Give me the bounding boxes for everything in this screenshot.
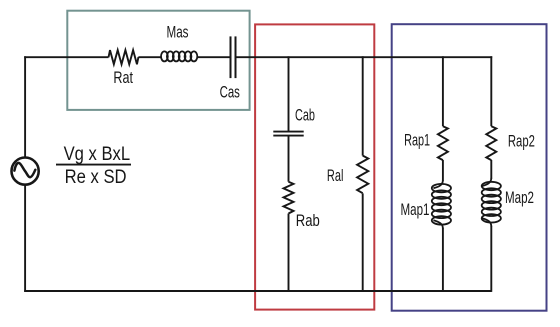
capacitor Cab <box>273 132 303 136</box>
label: source value fraction Vg x BxL / Re x SD <box>56 144 131 188</box>
svg-text:Ral: Ral <box>327 166 344 185</box>
svg-text:Rab: Rab <box>296 211 320 230</box>
wire: top rail segment from Rat to Mas <box>138 56 161 58</box>
wire: red-right branch upper (top rail to Ral) <box>362 56 364 155</box>
svg-text:Mas: Mas <box>167 23 189 42</box>
inductor Map2 <box>482 178 501 227</box>
wire: top rail segment from Mas to Cas <box>197 56 230 58</box>
red box (box acoustic load group) <box>255 24 374 309</box>
wire: blue-left branch middle (Rap1 to Map1) <box>442 160 444 181</box>
wire: blue-right branch upper (top rail to Rap2) <box>490 56 492 126</box>
wire: blue-left branch upper (top rail to Rap1) <box>442 56 444 126</box>
svg-text:Rap2: Rap2 <box>508 131 535 150</box>
capacitor Cas <box>231 36 236 78</box>
svg-text:Rat: Rat <box>113 68 133 87</box>
svg-text:Rap1: Rap1 <box>404 131 430 150</box>
resistor Rap2 <box>486 126 496 160</box>
resistor Rab <box>284 182 294 214</box>
wire: red-right branch lower (Ral to bottom rail) <box>362 193 364 292</box>
wire: left rail lower (source to bottom rail) <box>24 186 26 292</box>
wire: red-left branch upper (top rail to Cab) <box>288 56 290 131</box>
resistor Ral <box>357 156 368 194</box>
resistor Rap1 <box>438 126 448 160</box>
wire: left rail upper (source to top rail) <box>24 56 26 157</box>
wire: blue-right branch lower (Map2 to bottom rail) <box>490 226 492 292</box>
wire: blue-left branch lower (Map1 to bottom rail) <box>442 228 444 292</box>
svg-text:Map1: Map1 <box>401 200 430 219</box>
resistor Rat <box>109 50 139 64</box>
teal box (mechanical/acoustic series group) <box>67 11 249 110</box>
inductor Mas <box>161 51 197 61</box>
svg-text:Re x SD: Re x SD <box>65 167 127 188</box>
wire: red-left branch middle (Cab to Rab) <box>288 136 290 182</box>
inductor Map1 <box>432 180 451 229</box>
svg-text:Cab: Cab <box>295 106 315 125</box>
svg-text:Cas: Cas <box>220 82 240 101</box>
svg-text:Map2: Map2 <box>505 188 534 207</box>
svg-text:Vg x BxL: Vg x BxL <box>64 144 131 165</box>
voltage source V <box>12 158 39 185</box>
wire: top rail segment from source to resistor Rat <box>24 56 108 58</box>
wire: red-left branch lower (Rab to bottom rail) <box>288 214 290 292</box>
blue box (port group) <box>392 24 547 311</box>
wire: top rail segment from Cas to node B2 end <box>236 56 493 58</box>
wire: blue-right branch middle (Rap2 to Map2) <box>490 160 492 179</box>
wire: bottom rail <box>24 290 491 292</box>
